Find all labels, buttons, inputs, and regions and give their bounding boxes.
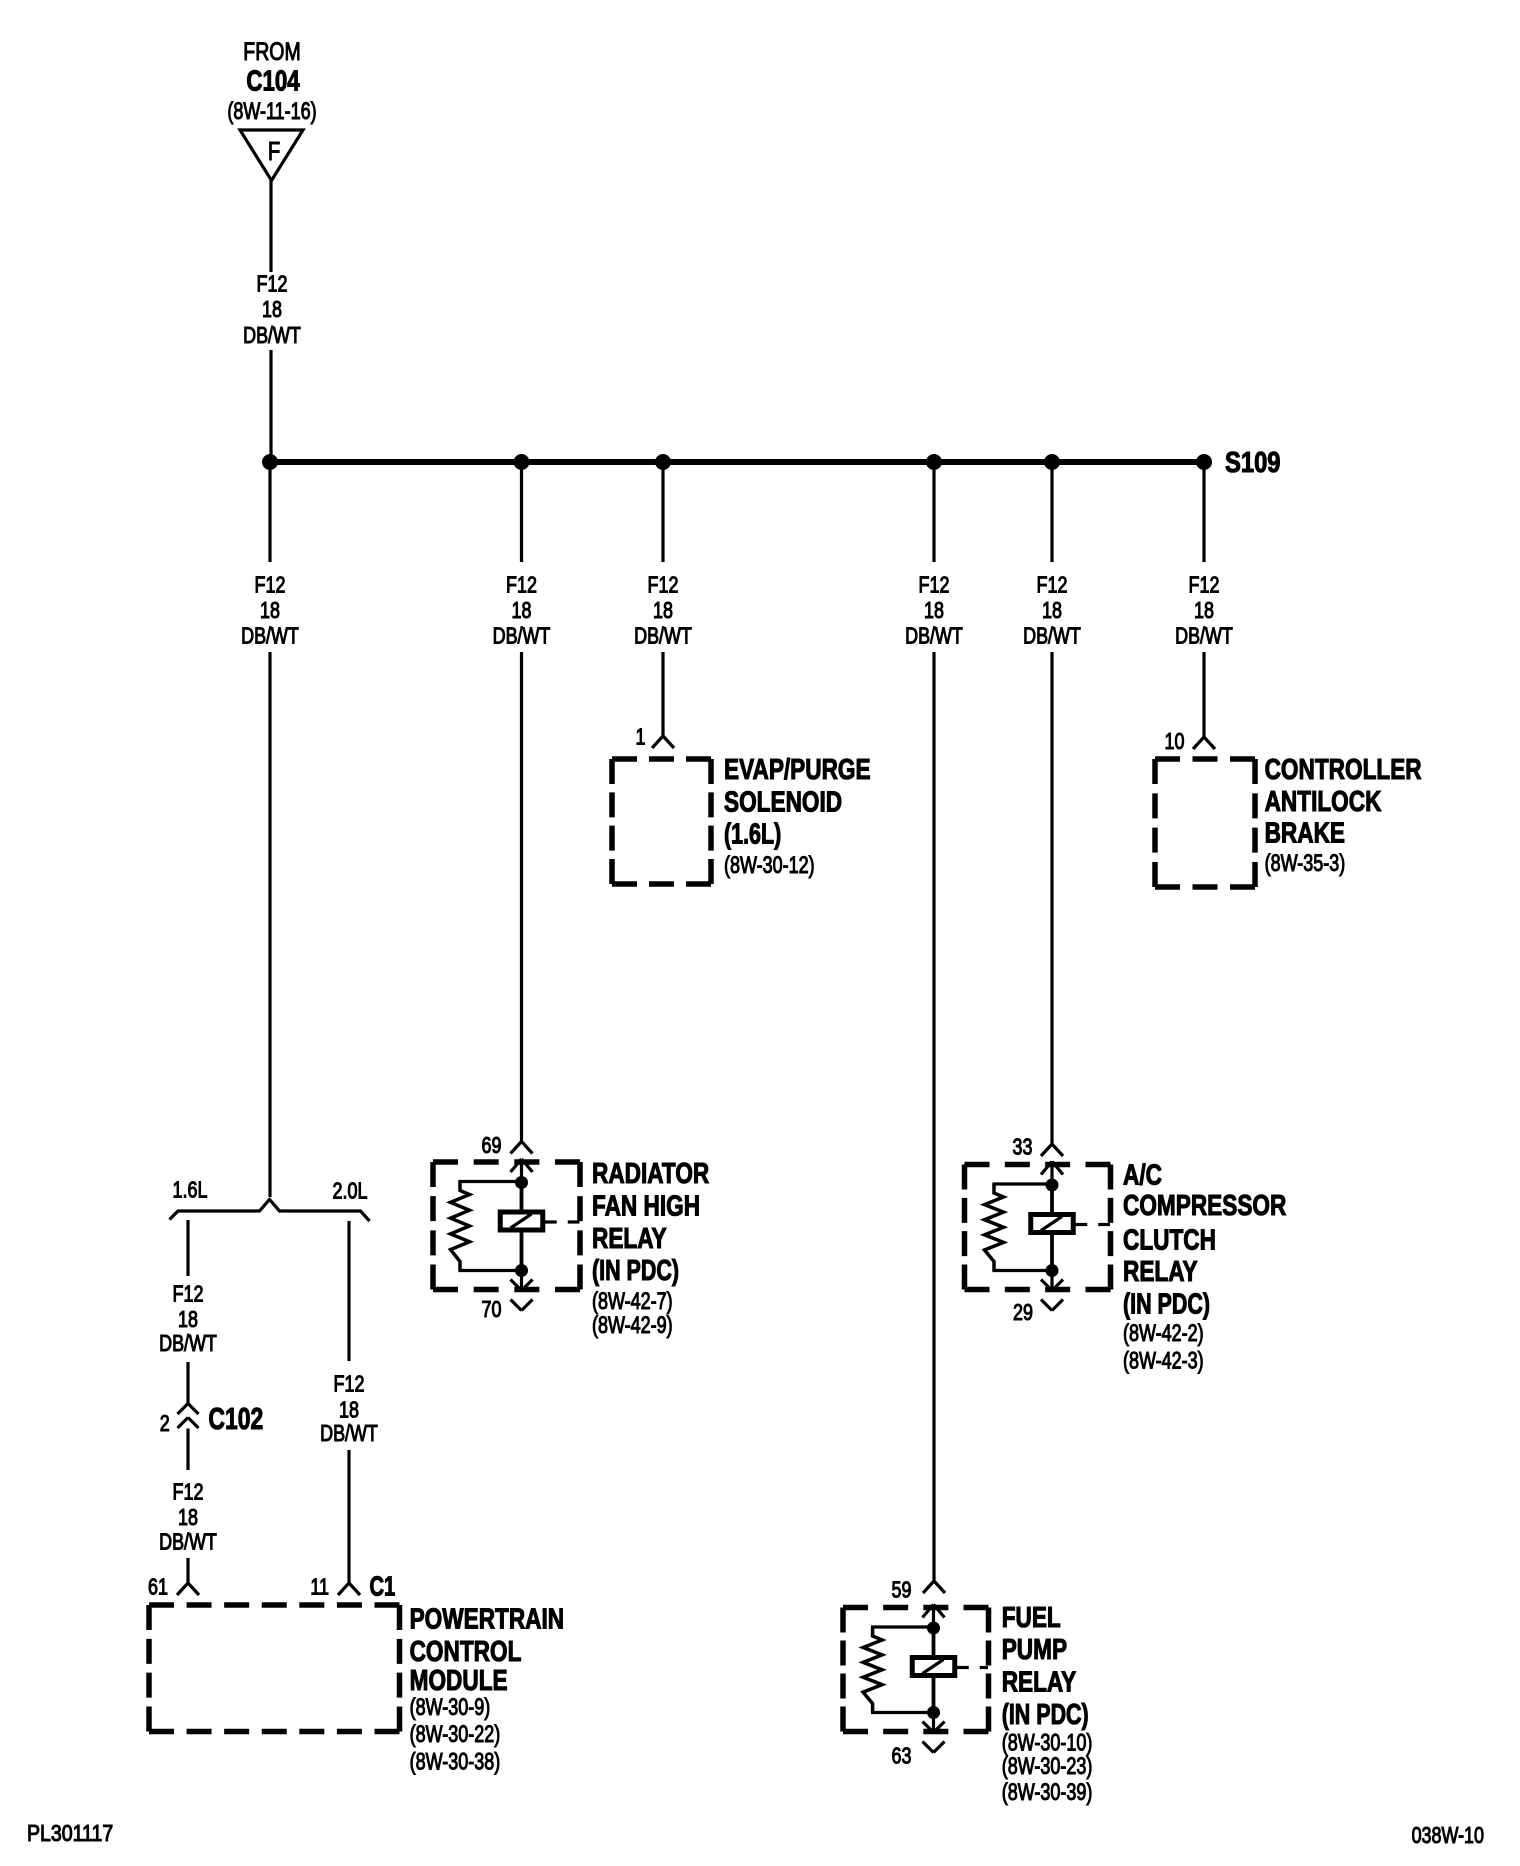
wire to PCM pin 61 [186,1558,189,1583]
fuel pump relay wire coil to pin 63 [932,1713,935,1733]
svg-text:F12: F12 [257,271,288,297]
wire drop 3 lower segment [661,652,664,736]
wire drop 2 lower segment [520,652,523,1142]
svg-text:18: 18 [260,598,280,624]
A/C compressor clutch relay pin 33 male connector arrow (top) [1041,1162,1052,1175]
svg-text:18: 18 [1042,598,1062,624]
splice junction dot 1 [262,454,278,470]
svg-text:C102: C102 [208,1401,263,1436]
wire drop 1 upper segment [268,462,271,562]
svg-text:PL301117: PL301117 [27,1821,113,1847]
splice junction dot 5 [1044,454,1060,470]
fuel pump relay coil bottom junction dot [927,1706,940,1719]
splice junction dot 4 [926,454,942,470]
A/C compressor clutch relay wire coil to pin 29 [1050,1271,1053,1291]
svg-text:(8W-11-16): (8W-11-16) [227,99,316,125]
wire drop 6 lower segment [1202,652,1205,737]
wire to connector C102 [186,1362,189,1404]
splice junction dot 6 [1196,454,1212,470]
svg-text:PUMP: PUMP [1002,1632,1067,1665]
PCM pin 61 female connector [177,1583,188,1595]
radiator relay pin 69 female connector [511,1142,522,1154]
inline connector C102 (double chevron) [178,1404,189,1415]
svg-text:18: 18 [653,598,673,624]
PCM pin 11 female connector [338,1583,349,1595]
powertrain control module box (dashed) [149,1602,400,1608]
svg-text:(8W-35-3): (8W-35-3) [1265,851,1346,877]
svg-text:F12: F12 [255,572,286,598]
wire to PCM pin 11 [347,1450,350,1583]
A/C compressor clutch relay resistor bottom wire [992,1269,1052,1272]
svg-text:18: 18 [262,297,282,323]
svg-text:63: 63 [892,1743,912,1769]
svg-text:2: 2 [160,1411,170,1437]
svg-text:70: 70 [482,1297,502,1323]
radiator fan relay resistor top wire [458,1180,521,1183]
wire drop 5 lower segment [1050,652,1053,1144]
svg-text:(8W-30-9): (8W-30-9) [410,1694,491,1720]
svg-text:F12: F12 [648,572,679,598]
svg-text:CLUTCH: CLUTCH [1123,1223,1216,1256]
svg-text:59: 59 [892,1577,912,1603]
svg-text:DB/WT: DB/WT [159,1529,217,1555]
svg-text:POWERTRAIN: POWERTRAIN [410,1602,565,1635]
wire F12 from triangle to splice [269,180,272,272]
svg-text:(8W-30-12): (8W-30-12) [724,853,815,879]
A/C compressor clutch relay coil top junction dot [1046,1179,1059,1192]
A/C compressor clutch relay coil wire (vertical) [1050,1185,1054,1271]
svg-text:1: 1 [636,724,646,750]
svg-text:A/C: A/C [1123,1158,1162,1191]
wire below C102 [186,1429,189,1471]
svg-text:F12: F12 [919,572,950,598]
splice junction dot 2 [514,454,530,470]
svg-text:29: 29 [1013,1300,1033,1326]
svg-text:F12: F12 [1037,572,1068,598]
fuel pump relay resistor top wire [871,1625,934,1628]
svg-text:18: 18 [178,1307,198,1333]
svg-text:DB/WT: DB/WT [905,623,963,649]
svg-text:(8W-42-3): (8W-42-3) [1123,1348,1204,1374]
wire drop 4 upper segment [932,462,935,562]
A/C relay pin 33 female connector [1041,1144,1052,1156]
radiator fan relay coil bottom junction dot [515,1264,528,1277]
radiator fan relay box (dashed) [433,1159,580,1165]
A/C compressor clutch relay pin 29 female connector chevron (below box) [1041,1300,1052,1311]
wire drop 4 lower segment [932,652,935,1581]
svg-text:(8W-30-38): (8W-30-38) [410,1749,501,1775]
svg-text:F12: F12 [506,572,537,598]
fuel pump relay resistor bottom wire [871,1711,934,1714]
svg-text:33: 33 [1013,1134,1033,1160]
svg-text:(8W-30-10): (8W-30-10) [1002,1730,1093,1756]
svg-text:BRAKE: BRAKE [1265,816,1345,849]
svg-text:18: 18 [178,1505,198,1531]
wire drop 3 upper segment [661,462,664,562]
fuel pump relay pin 63 male connector arrow (bottom) [923,1722,934,1733]
wire continues to splice S109 [269,350,272,462]
fuel pump relay resistor (suppression) [863,1627,882,1713]
svg-text:038W-10: 038W-10 [1412,1823,1484,1849]
EVAP solenoid pin 1 female connector [652,736,663,748]
svg-text:F12: F12 [173,1480,204,1506]
svg-text:(8W-30-39): (8W-30-39) [1002,1780,1093,1806]
wire drop 6 upper segment [1202,462,1205,562]
engine split brace [170,1200,370,1222]
A/C compressor clutch relay coil diagonal [1041,1217,1062,1231]
radiator fan relay pin 70 female connector chevron (below box) [511,1300,522,1311]
svg-text:DB/WT: DB/WT [159,1331,217,1357]
splice junction dot 3 [655,454,671,470]
svg-text:10: 10 [1165,729,1185,755]
radiator fan relay resistor bottom wire [458,1269,521,1272]
svg-text:COMPRESSOR: COMPRESSOR [1123,1188,1287,1221]
radiator fan relay coil top junction dot [515,1176,528,1189]
A/C compressor clutch relay switch contact tap [1073,1223,1087,1226]
CAB pin 10 female connector [1193,737,1204,749]
svg-text:(1.6L): (1.6L) [724,819,781,851]
A/C compressor clutch relay wire pin 33 to coil [1050,1162,1053,1186]
radiator fan relay pin 69 male connector arrow (top) [511,1159,522,1172]
svg-text:F12: F12 [334,1371,365,1397]
fuel pump relay pin 63 female connector chevron (below box) [923,1742,934,1753]
svg-text:RADIATOR: RADIATOR [592,1156,709,1189]
svg-text:S109: S109 [1225,446,1280,479]
wire drop 5 upper segment [1050,462,1053,562]
svg-text:(8W-42-7): (8W-42-7) [592,1289,673,1315]
svg-text:C1: C1 [370,1572,396,1603]
fuel pump relay box (dashed) [843,1605,989,1611]
fuel pump relay coil diagonal [923,1660,944,1674]
svg-text:61: 61 [148,1574,168,1600]
svg-text:18: 18 [512,598,532,624]
svg-text:RELAY: RELAY [1002,1665,1077,1698]
fuel pump relay relay coil rectangle [912,1658,955,1676]
svg-text:ANTILOCK: ANTILOCK [1265,784,1382,817]
A/C compressor clutch relay coil bottom junction dot [1046,1264,1059,1277]
fuel pump relay switch contact tap [955,1666,969,1669]
fuel pump relay pin 59 female connector [923,1581,934,1593]
wire 1.6L branch upper [186,1220,189,1276]
A/C compressor clutch relay box (dashed) [965,1162,1111,1168]
svg-text:(8W-30-22): (8W-30-22) [410,1722,501,1748]
fuel pump relay pin 59 male connector arrow (top) [923,1605,934,1618]
svg-text:DB/WT: DB/WT [320,1421,378,1447]
svg-text:SOLENOID: SOLENOID [724,785,842,818]
fuel pump relay wire pin 59 to coil [932,1605,935,1629]
radiator fan relay coil diagonal [511,1214,532,1228]
radiator fan relay wire pin 69 to coil [520,1159,523,1183]
splice bus S109 horizontal wire [270,459,1204,465]
svg-text:FROM: FROM [243,38,300,66]
radiator fan relay pin 70 male connector arrow (bottom) [511,1280,522,1291]
EVAP/PURGE solenoid box (dashed) [612,756,711,762]
svg-text:(8W-30-23): (8W-30-23) [1002,1754,1093,1780]
svg-text:MODULE: MODULE [410,1663,508,1696]
off-page connector triangle F (from C104) [240,130,303,181]
svg-text:DB/WT: DB/WT [634,623,692,649]
radiator fan relay coil wire (vertical) [520,1183,524,1271]
svg-text:(IN PDC): (IN PDC) [1123,1289,1210,1321]
svg-text:CONTROLLER: CONTROLLER [1265,752,1422,785]
svg-text:1.6L: 1.6L [173,1177,208,1203]
A/C compressor clutch relay relay coil rectangle [1031,1215,1074,1233]
wire drop 1 lower segment [268,652,271,1197]
svg-text:FAN HIGH: FAN HIGH [592,1189,700,1222]
A/C compressor clutch relay pin 29 male connector arrow (bottom) [1041,1280,1052,1291]
svg-text:F: F [268,137,280,166]
radiator fan relay wire coil to pin 70 [520,1271,523,1291]
svg-text:RELAY: RELAY [592,1221,667,1254]
svg-text:F12: F12 [173,1281,204,1307]
svg-text:DB/WT: DB/WT [1023,623,1081,649]
svg-text:DB/WT: DB/WT [1175,623,1233,649]
fuel pump relay coil top junction dot [927,1622,940,1635]
svg-text:DB/WT: DB/WT [493,623,551,649]
A/C compressor clutch relay resistor (suppression) [985,1184,1004,1271]
radiator fan relay relay coil rectangle [500,1212,543,1230]
svg-text:DB/WT: DB/WT [241,623,299,649]
svg-text:C104: C104 [246,66,300,97]
svg-text:18: 18 [924,598,944,624]
radiator fan relay resistor (suppression) [451,1182,470,1271]
controller antilock brake box (dashed) [1155,756,1255,762]
svg-text:69: 69 [482,1133,502,1159]
svg-text:FUEL: FUEL [1002,1600,1061,1633]
svg-text:(8W-42-9): (8W-42-9) [592,1313,673,1339]
svg-text:11: 11 [310,1574,329,1600]
svg-text:F12: F12 [1189,572,1220,598]
svg-text:18: 18 [1194,598,1214,624]
fuel pump relay coil wire (vertical) [932,1628,936,1713]
svg-text:DB/WT: DB/WT [243,323,301,349]
A/C compressor clutch relay resistor top wire [992,1182,1052,1185]
svg-text:(8W-42-2): (8W-42-2) [1123,1321,1204,1347]
svg-text:EVAP/PURGE: EVAP/PURGE [724,752,871,785]
svg-text:2.0L: 2.0L [333,1178,368,1204]
radiator fan relay switch contact tap [543,1220,557,1223]
wire 2.0L branch upper [347,1221,350,1361]
svg-text:18: 18 [339,1397,359,1423]
wire drop 2 upper segment [520,462,523,562]
svg-text:RELAY: RELAY [1123,1254,1198,1287]
svg-text:(IN PDC): (IN PDC) [592,1255,679,1287]
svg-text:(IN PDC): (IN PDC) [1002,1699,1089,1731]
